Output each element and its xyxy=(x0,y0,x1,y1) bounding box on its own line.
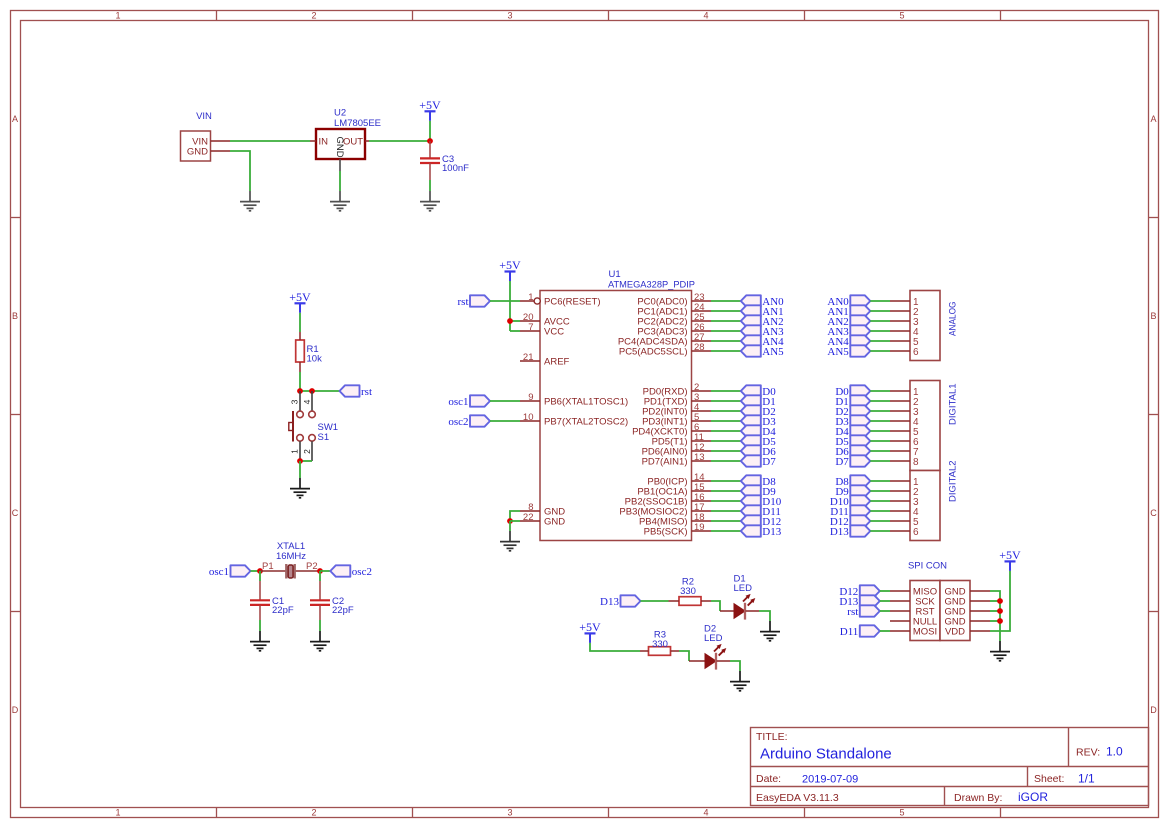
wire AN3 to header xyxy=(870,330,890,332)
pin SPI right xyxy=(970,590,990,592)
pin header D3 xyxy=(890,420,910,422)
net flag AN5 at header xyxy=(827,345,870,358)
svg-text:D7: D7 xyxy=(835,456,849,468)
svg-text:C: C xyxy=(1150,508,1157,518)
wire R2 to D1 xyxy=(711,601,720,611)
svg-text:DIGITAL1: DIGITAL1 xyxy=(948,383,959,425)
pin header D7 xyxy=(890,460,910,462)
wire D11 to header xyxy=(870,510,890,512)
svg-text:330: 330 xyxy=(652,639,668,650)
connector VIN xyxy=(181,111,213,161)
svg-text:VIN: VIN xyxy=(196,111,212,122)
svg-text:LED: LED xyxy=(704,633,723,644)
wire rst to PC6 xyxy=(490,300,520,302)
svg-text:+5V: +5V xyxy=(579,620,601,634)
net flag D9 xyxy=(741,485,776,498)
svg-text:6: 6 xyxy=(913,347,919,358)
pin 9 PB6(XTAL1TOSC1) xyxy=(520,392,628,407)
wire D3 to header xyxy=(870,420,890,422)
resistor R1 10k xyxy=(296,340,322,365)
net flag D10 xyxy=(741,495,782,508)
net flag osc2 xyxy=(330,565,372,578)
pin SPI NULL xyxy=(890,620,910,622)
connector DIGITAL1 xyxy=(910,381,959,471)
pin R2.2 xyxy=(701,600,711,602)
pin C1.1 xyxy=(259,581,261,600)
net flag rst xyxy=(340,385,373,398)
wire switch to ground xyxy=(299,461,301,478)
svg-text:+5V: +5V xyxy=(999,548,1021,562)
svg-text:ANALOG: ANALOG xyxy=(948,302,959,337)
junction switch pin3 xyxy=(297,388,303,394)
junction U1 GND xyxy=(507,518,513,524)
svg-text:6: 6 xyxy=(913,527,919,538)
pin C2.2 xyxy=(319,605,321,620)
pin R1.2 xyxy=(299,362,301,372)
wire AN2 to header xyxy=(870,320,890,322)
wire D1 to header xyxy=(870,400,890,402)
wire D5 to header xyxy=(870,440,890,442)
pin 2 PD0(RXD) xyxy=(643,382,711,397)
wire PD6(AIN0) to D6 xyxy=(711,450,741,452)
net flag D12 xyxy=(741,515,781,528)
wire osc1 to PB6 xyxy=(490,400,520,402)
svg-text:VDD: VDD xyxy=(945,626,965,637)
pin SPI right xyxy=(970,610,990,612)
pin SPI D11 xyxy=(890,630,910,632)
wire PB0(ICP) to D8 xyxy=(711,480,741,482)
pin SPI right xyxy=(970,630,990,632)
net flag D2 at header xyxy=(835,405,870,418)
wire PD5(T1) to D5 xyxy=(711,440,741,442)
pin 20 AVCC xyxy=(520,312,570,327)
ground at SW1 xyxy=(290,478,310,498)
svg-text:28: 28 xyxy=(694,342,705,353)
wire P2 to C2 xyxy=(319,571,321,581)
wire PB1(OC1A) to D9 xyxy=(711,490,741,492)
svg-text:osc2: osc2 xyxy=(352,566,372,578)
pin 5 PD3(INT1) xyxy=(642,412,711,427)
svg-text:PB7(XTAL2TOSC2): PB7(XTAL2TOSC2) xyxy=(544,416,628,427)
net flag D12 at header xyxy=(830,515,870,528)
svg-text:Arduino Standalone: Arduino Standalone xyxy=(760,746,892,763)
ground at U1 xyxy=(500,531,520,551)
svg-text:REV:: REV: xyxy=(1076,747,1100,759)
svg-text:D13: D13 xyxy=(600,596,619,608)
net flag D1 xyxy=(741,395,776,408)
wire AN1 to header xyxy=(870,310,890,312)
wire C3 to ground xyxy=(429,180,431,191)
wire C1 to ground xyxy=(259,620,261,631)
net flag AN1 at header xyxy=(827,305,870,318)
pin SPI rst xyxy=(890,610,910,612)
pin 19 PB5(SCK) xyxy=(644,522,711,537)
junction node P2 xyxy=(317,568,323,574)
pin 8 GND xyxy=(520,502,565,517)
svg-text:3: 3 xyxy=(507,808,512,818)
pin 11 PD5(T1) xyxy=(652,432,711,447)
wire PD7(AIN1) to D7 xyxy=(711,460,741,462)
wire D10 to header xyxy=(870,500,890,502)
wire D13 to header xyxy=(870,530,890,532)
pin 13 PD7(AIN1) xyxy=(642,452,711,467)
net flag rst at SPI xyxy=(847,605,880,618)
pin header D2 xyxy=(890,410,910,412)
pin 25 PC2(ADC2) xyxy=(637,312,711,327)
wire rst to SPI xyxy=(880,610,890,612)
pin D2.anode xyxy=(689,660,705,662)
wire PC4(ADC4SDA) to AN4 xyxy=(711,340,741,342)
net flag AN0 at header xyxy=(827,295,870,308)
net flag D5 at header xyxy=(835,435,870,448)
svg-text:13: 13 xyxy=(694,452,705,463)
net flag D9 at header xyxy=(835,485,870,498)
pin header D5 xyxy=(890,440,910,442)
title block xyxy=(751,728,1149,806)
svg-text:PD7(AIN1): PD7(AIN1) xyxy=(642,456,688,467)
junction GND 3 xyxy=(997,608,1003,614)
wire AVCC spur xyxy=(510,320,520,322)
wire PC3(ADC3) to AN3 xyxy=(711,330,741,332)
pin R2.1 xyxy=(669,600,680,602)
net flag D8 at header xyxy=(835,475,870,488)
net flag D3 at header xyxy=(835,415,870,428)
pin header D1 xyxy=(890,400,910,402)
svg-text:2: 2 xyxy=(302,449,312,454)
wire U2 GND xyxy=(339,171,341,191)
pin U2.GND xyxy=(339,159,341,171)
ground at U2 xyxy=(330,191,350,211)
wire R1 to switch node xyxy=(299,372,301,391)
svg-text:rst: rst xyxy=(361,386,372,398)
ground at VIN xyxy=(240,191,260,211)
svg-text:19: 19 xyxy=(694,522,705,533)
svg-text:B: B xyxy=(1150,311,1156,321)
svg-text:1.0: 1.0 xyxy=(1106,745,1123,759)
svg-text:S1: S1 xyxy=(318,432,330,443)
wire +5V to AVCC/VCC xyxy=(509,281,511,331)
svg-text:rst: rst xyxy=(458,296,469,308)
wire D6 to header xyxy=(870,450,890,452)
net flag D0 xyxy=(741,385,776,398)
pin 23 PC0(ADC0) xyxy=(637,292,711,307)
ground at C2 xyxy=(310,631,330,651)
pin D1.cathode xyxy=(746,610,759,612)
power +5V above SPI xyxy=(999,548,1021,571)
ground at D2 xyxy=(730,671,750,691)
pin header D0 xyxy=(890,390,910,392)
svg-text:+5V: +5V xyxy=(419,98,441,112)
pin header D8 xyxy=(890,480,910,482)
net flag osc1 at U1 xyxy=(448,395,490,408)
net flag D5 xyxy=(741,435,776,448)
junction switch pin1 xyxy=(297,458,303,464)
svg-text:22pF: 22pF xyxy=(272,605,294,616)
pin 1 PC6(RESET) xyxy=(520,292,600,307)
pin 26 PC3(ADC3) xyxy=(637,322,711,337)
wire PD3(INT1) to D3 xyxy=(711,420,741,422)
wire P1 to C1 xyxy=(259,571,261,581)
net flag D7 at header xyxy=(835,455,870,468)
svg-text:SPI CON: SPI CON xyxy=(908,561,947,572)
pin VIN.2 xyxy=(211,150,231,152)
net flag D11 at header xyxy=(830,505,870,518)
svg-text:C: C xyxy=(12,508,19,518)
op-amp U2 LM7805EE regulator xyxy=(316,108,381,160)
svg-text:4: 4 xyxy=(302,399,312,404)
svg-text:D7: D7 xyxy=(762,456,776,468)
wire D8 to header xyxy=(870,480,890,482)
svg-text:22pF: 22pF xyxy=(332,605,354,616)
pin header D13 xyxy=(890,530,910,532)
wire PB5(SCK) to D13 xyxy=(711,530,741,532)
connector SPI CON xyxy=(908,561,970,641)
pin 12 PD6(AIN0) xyxy=(642,442,711,457)
resistor R2 330 xyxy=(679,577,701,606)
pin header D6 xyxy=(890,450,910,452)
pin 14 PB0(ICP) xyxy=(647,472,711,487)
wire PD0(RXD) to D0 xyxy=(711,390,741,392)
wire PC2(ADC2) to AN2 xyxy=(711,320,741,322)
net flag AN1 xyxy=(741,305,784,318)
wire VIN to U2 IN xyxy=(230,140,310,142)
svg-text:4: 4 xyxy=(703,808,708,818)
pin header AN5 xyxy=(890,350,910,352)
wire VIN GND down xyxy=(230,151,250,191)
net flag D11 xyxy=(741,505,781,518)
pin header D4 xyxy=(890,430,910,432)
wire PC1(ADC1) to AN1 xyxy=(711,310,741,312)
pin C3.2 xyxy=(429,163,431,180)
power +5V above C3 xyxy=(419,98,441,121)
svg-text:Drawn By:: Drawn By: xyxy=(954,792,1002,804)
crystal XTAL1 16MHz xyxy=(260,541,320,579)
svg-text:22: 22 xyxy=(523,512,534,523)
op-amp U1 ATMEGA328P_PDIP xyxy=(540,269,695,541)
svg-text:2019-07-09: 2019-07-09 xyxy=(802,774,858,786)
svg-text:330: 330 xyxy=(680,586,696,597)
net flag D6 at header xyxy=(835,445,870,458)
svg-text:VCC: VCC xyxy=(544,326,564,337)
wire R3 to D2 xyxy=(679,651,689,661)
junction switch pin4 xyxy=(309,388,315,394)
wire PB3(MOSIOC2) to D11 xyxy=(711,510,741,512)
svg-text:D: D xyxy=(1150,705,1157,715)
svg-text:LM7805EE: LM7805EE xyxy=(334,118,381,129)
pin 24 PC1(ADC1) xyxy=(637,302,711,317)
svg-text:Sheet:: Sheet: xyxy=(1034,773,1064,785)
net flag D4 at header xyxy=(835,425,870,438)
wire osc1 to P1 xyxy=(251,570,261,572)
wire GND spur 4 xyxy=(990,620,1000,622)
wire switch node to rst flag xyxy=(300,390,340,392)
svg-text:osc1: osc1 xyxy=(209,566,229,578)
svg-text:LED: LED xyxy=(734,583,753,594)
svg-text:5: 5 xyxy=(899,808,904,818)
svg-text:AN5: AN5 xyxy=(762,346,784,358)
pin 17 PB3(MOSIOC2) xyxy=(619,502,711,517)
svg-text:AN5: AN5 xyxy=(827,346,849,358)
net flag AN4 xyxy=(741,335,784,348)
wire C2 to ground xyxy=(319,620,321,631)
pin header D9 xyxy=(890,490,910,492)
svg-text:+5V: +5V xyxy=(289,290,311,304)
resistor R3 330 xyxy=(649,630,671,656)
pin 21 AREF xyxy=(520,352,570,367)
wire PB4(MISO) to D12 xyxy=(711,520,741,522)
svg-text:iGOR: iGOR xyxy=(1018,790,1048,804)
pin 15 PB1(OC1A) xyxy=(637,482,711,497)
pin header AN2 xyxy=(890,320,910,322)
wire GND22 spur xyxy=(510,520,520,522)
pin header AN4 xyxy=(890,340,910,342)
net flag D4 xyxy=(741,425,776,438)
svg-text:GND: GND xyxy=(187,146,208,157)
wire +5V to R3 xyxy=(590,643,640,651)
net flag D12 at SPI xyxy=(839,585,879,598)
wire U1 GND pins xyxy=(510,511,520,521)
ground at C1 xyxy=(250,631,270,651)
wire PD2(INT0) to D2 xyxy=(711,410,741,412)
ground at SPI xyxy=(990,641,1010,661)
pin 28 PC5(ADC5SCL) xyxy=(619,342,711,357)
svg-text:4: 4 xyxy=(703,10,708,20)
net flag D13 at SPI xyxy=(839,595,879,608)
svg-text:21: 21 xyxy=(523,352,534,363)
pin SPI right xyxy=(970,620,990,622)
wire GND spur 3 xyxy=(990,610,1000,612)
svg-text:3: 3 xyxy=(290,399,300,404)
net flag AN2 xyxy=(741,315,784,328)
pin header D11 xyxy=(890,510,910,512)
diode D2 LED xyxy=(704,624,726,670)
wire P2 to osc2 xyxy=(320,570,330,572)
svg-text:GND: GND xyxy=(334,137,345,158)
wire GND spur 2 xyxy=(990,600,1000,602)
pin 6 PD4(XCKT0) xyxy=(632,422,711,437)
pin 16 PB2(SSOC1B) xyxy=(625,492,711,507)
junction GND 4 xyxy=(997,618,1003,624)
svg-text:U1: U1 xyxy=(609,269,621,280)
net flag D3 xyxy=(741,415,776,428)
svg-text:D11: D11 xyxy=(840,626,859,638)
pin R1.1 xyxy=(299,332,301,340)
wire SPI GND bus xyxy=(990,591,1000,641)
connector DIGITAL2 xyxy=(910,460,959,540)
net flag AN5 xyxy=(741,345,784,358)
svg-text:DIGITAL2: DIGITAL2 xyxy=(948,460,959,502)
pin 27 PC4(ADC4SDA) xyxy=(618,332,711,347)
svg-text:U2: U2 xyxy=(334,108,346,119)
net flag D13 at R2 xyxy=(600,595,640,608)
power +5V above R3 xyxy=(579,620,601,643)
net flag D6 xyxy=(741,445,776,458)
net flag D13 at header xyxy=(830,525,870,538)
wire VCC spur xyxy=(510,330,520,332)
svg-text:rst: rst xyxy=(847,606,858,618)
junction node P1 xyxy=(257,568,263,574)
wire D0 to header xyxy=(870,390,890,392)
wire D2 to header xyxy=(870,410,890,412)
net flag D1 at header xyxy=(835,395,870,408)
svg-text:9: 9 xyxy=(528,392,533,403)
pin VIN.1 xyxy=(211,140,231,142)
pin U2.IN xyxy=(310,140,316,142)
svg-text:AREF: AREF xyxy=(544,356,570,367)
pin D1.anode xyxy=(720,610,734,612)
pin 4 PD2(INT0) xyxy=(642,402,711,417)
wire PD4(XCKT0) to D4 xyxy=(711,430,741,432)
net flag AN3 at header xyxy=(827,325,870,338)
net flag AN4 at header xyxy=(827,335,870,348)
wire AN0 to header xyxy=(870,300,890,302)
svg-text:D13: D13 xyxy=(762,526,781,538)
svg-text:PB5(SCK): PB5(SCK) xyxy=(644,526,688,537)
wire D1 to ground xyxy=(759,611,770,621)
net flag D2 xyxy=(741,405,776,418)
net flag AN2 at header xyxy=(827,315,870,328)
svg-text:2: 2 xyxy=(311,10,316,20)
wire AN5 to header xyxy=(870,350,890,352)
pin 7 VCC xyxy=(520,322,564,337)
svg-text:GND: GND xyxy=(544,516,565,527)
junction +5V C3 node xyxy=(427,138,433,144)
diode D1 LED xyxy=(734,574,756,620)
pin header D12 xyxy=(890,520,910,522)
wire D7 to header xyxy=(870,460,890,462)
svg-text:osc1: osc1 xyxy=(448,396,468,408)
pin U2.OUT xyxy=(365,140,369,142)
wire D13 to SPI xyxy=(880,600,890,602)
svg-text:5: 5 xyxy=(899,10,904,20)
junction GND 2 xyxy=(997,598,1003,604)
wire D11 to SPI xyxy=(880,630,890,632)
pin SPI D13 xyxy=(890,600,910,602)
svg-text:B: B xyxy=(12,311,18,321)
svg-text:1: 1 xyxy=(115,808,120,818)
pin R3.1 xyxy=(640,650,649,652)
svg-text:1: 1 xyxy=(115,10,120,20)
title text xyxy=(756,731,1123,804)
net flag D8 xyxy=(741,475,776,488)
wire osc2 to PB7 xyxy=(490,420,520,422)
pin SPI D12 xyxy=(890,590,910,592)
pin header D10 xyxy=(890,500,910,502)
pin R3.2 xyxy=(671,650,680,652)
connector ANALOG xyxy=(910,291,959,361)
net flag D0 at header xyxy=(835,385,870,398)
transistor SW1 S1 pushbutton xyxy=(289,391,338,461)
svg-text:2: 2 xyxy=(311,808,316,818)
wire D12 to header xyxy=(870,520,890,522)
pin SPI right xyxy=(970,600,990,602)
svg-text:PC5(ADC5SCL): PC5(ADC5SCL) xyxy=(619,346,688,357)
net flag AN3 xyxy=(741,325,784,338)
wire AN4 to header xyxy=(870,340,890,342)
pin header AN0 xyxy=(890,300,910,302)
net flag AN0 xyxy=(741,295,784,308)
svg-text:PB6(XTAL1TOSC1): PB6(XTAL1TOSC1) xyxy=(544,396,628,407)
pin 10 PB7(XTAL2TOSC2) xyxy=(520,412,628,427)
svg-text:D13: D13 xyxy=(830,526,849,538)
power +5V above R1 xyxy=(289,290,311,313)
wire PB2(SSOC1B) to D10 xyxy=(711,500,741,502)
wire switch bottom xyxy=(300,460,312,462)
svg-text:P2: P2 xyxy=(306,561,318,572)
svg-text:Date:: Date: xyxy=(756,773,781,785)
svg-text:7: 7 xyxy=(528,322,533,333)
net flag rst at U1 xyxy=(458,295,491,308)
